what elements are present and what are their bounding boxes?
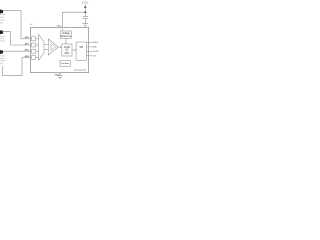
svg-text:VDD: VDD	[57, 25, 62, 27]
wire TC1 to AIN0	[3, 11, 31, 39]
svg-text:3.3 V: 3.3 V	[82, 0, 89, 4]
TC1 label text	[0, 14, 5, 23]
input protection box 1	[32, 37, 36, 41]
thermocouple TC2 junction	[0, 30, 3, 34]
VDD pin circle	[61, 26, 63, 27]
svg-text:SCLK: SCLK	[93, 42, 99, 44]
svg-text:Voltage: Voltage	[62, 32, 70, 35]
supply rail vertical	[84, 4, 86, 16]
mux	[39, 35, 44, 61]
wire TC3 to AIN2	[3, 50, 31, 52]
oscillator box	[60, 60, 70, 66]
wire VDD pin to reference	[61, 28, 63, 31]
svg-text:DIN: DIN	[93, 47, 97, 49]
input protection box 3	[32, 49, 36, 53]
TC2 label text	[0, 36, 5, 41]
SPI pin wires	[86, 42, 92, 55]
supply junction dot	[84, 11, 86, 13]
input protection box 2	[32, 43, 36, 47]
svg-text:Reference: Reference	[61, 35, 72, 38]
svg-text:16-Bit: 16-Bit	[64, 46, 70, 49]
wire supply to VDD pin	[62, 12, 85, 26]
ground (bottom)	[57, 76, 63, 79]
faint corner text	[29, 24, 32, 25]
GND pin circle	[59, 72, 61, 73]
wire reference to ADC	[65, 38, 67, 44]
wires boxes to mux	[36, 39, 39, 58]
TC3 label text	[0, 56, 5, 64]
ground (top right)	[82, 24, 88, 27]
thermocouple TC1 junction	[0, 10, 3, 14]
ADC box	[62, 44, 72, 56]
op-amp PGA inner	[51, 44, 56, 51]
sensor TC3 junction	[0, 50, 3, 54]
svg-text:Oscillator: Oscillator	[61, 62, 70, 65]
input protection box 4	[32, 55, 36, 59]
wire GND pin down	[59, 74, 61, 76]
supply terminal dot	[84, 6, 86, 8]
wire TC3 return to AIN3	[3, 57, 31, 75]
wire mux to PGA (-)	[44, 49, 48, 51]
wire TC2 to AIN1	[3, 31, 31, 45]
SPI interface box	[76, 42, 86, 60]
svg-text:ADS1118: ADS1118	[73, 68, 87, 72]
voltage reference box	[60, 31, 71, 38]
wire ADC to SPI	[72, 49, 76, 51]
svg-text:DOUT: DOUT	[93, 51, 100, 53]
wire mux to PGA (+)	[44, 44, 48, 46]
IC U1 outline	[30, 27, 88, 72]
svg-text:ADC: ADC	[64, 52, 69, 55]
capacitor C1	[83, 17, 88, 19]
wire PGA to ADC	[58, 46, 62, 48]
svg-text:SPI: SPI	[79, 47, 83, 49]
op-amp PGA outer	[48, 39, 58, 55]
